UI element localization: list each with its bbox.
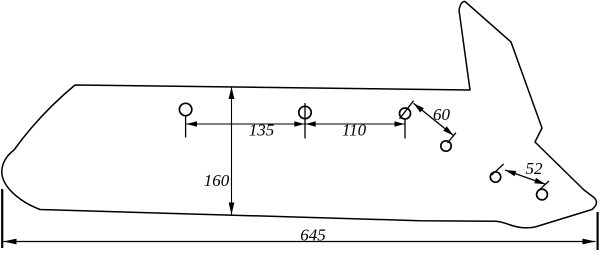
arrow upper 52 bbox=[505, 170, 516, 176]
svg-text:52: 52 bbox=[526, 159, 544, 178]
arrow right 645 bbox=[583, 239, 596, 245]
hole H3 tick diagonal bbox=[400, 101, 414, 119]
arrow down 160 bbox=[229, 203, 235, 215]
hole H6 bbox=[537, 189, 548, 200]
arrow left 645 bbox=[4, 239, 17, 245]
hole H2 bbox=[299, 106, 311, 118]
arrow lower 60 bbox=[443, 126, 453, 135]
svg-text:160: 160 bbox=[204, 171, 230, 190]
arrow left at H2 bbox=[306, 121, 316, 126]
hole H5 tick bbox=[492, 164, 504, 175]
hole H4 tick bbox=[448, 133, 457, 143]
arrow right at H3 bbox=[395, 121, 405, 126]
arrow up 160 bbox=[229, 87, 235, 99]
hole H4 bbox=[441, 141, 451, 151]
svg-text:60: 60 bbox=[433, 105, 451, 124]
svg-text:135: 135 bbox=[249, 121, 275, 140]
arrow left at H1 bbox=[186, 121, 197, 127]
hole H3 tick vertical bbox=[404, 120, 406, 139]
svg-text:110: 110 bbox=[342, 121, 367, 140]
arrow right at H2 bbox=[294, 121, 304, 126]
hole H1 bbox=[179, 103, 191, 115]
extension line left 645 bbox=[1, 189, 3, 248]
svg-text:645: 645 bbox=[300, 226, 326, 245]
dimension line 160 bbox=[231, 87, 233, 215]
arrow upper 60 bbox=[414, 103, 424, 112]
extension line right 645 bbox=[596, 212, 598, 250]
hole H5 bbox=[490, 172, 500, 182]
arrow lower 52 bbox=[534, 178, 545, 184]
dimension line 52 bbox=[505, 170, 546, 184]
hole H6 tick bbox=[538, 181, 550, 192]
hole H2 tick bbox=[304, 103, 306, 139]
dimension line 60 bbox=[414, 103, 454, 135]
dimension line 645 bbox=[4, 241, 596, 243]
dimension line 135/110 bbox=[186, 123, 405, 125]
hole H3 bbox=[400, 108, 411, 119]
hole H1 tick bbox=[185, 116, 187, 138]
